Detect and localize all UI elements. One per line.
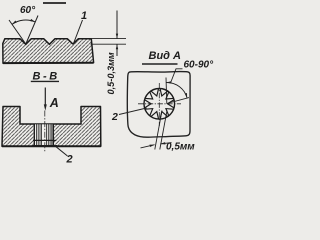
angle dimension legs (60-90) [166,78,189,104]
leader 2 (section view) [56,146,73,165]
dimension 60 degrees: angle legs [9,16,38,45]
background paper [0,0,220,165]
insert bottom flange lines [33,140,58,146]
leader 1 [74,10,88,44]
svg-text:Вид А: Вид А [149,50,182,62]
top fragment line [43,2,66,4]
leader 2 (plan view) [111,108,147,123]
dimension line 0,5-0,3mm with arrows [116,11,118,57]
svg-text:60-90°: 60-90° [184,60,215,71]
svg-text:В-В: В-В [33,71,60,83]
centerlines of hole [138,83,181,126]
extension lines for notch depth [91,39,127,45]
svg-text:1: 1 [81,10,87,22]
centerline of insert (dash-dot) [44,111,46,152]
serrated insert: vertical serration lines [34,124,53,147]
angle dimension arc with arrows [166,81,187,98]
lower block bottom edge (thick) [2,145,101,147]
serrated insert window (white) [34,124,53,145]
dimension 60 degrees: arc with arrows [12,19,35,24]
svg-text:0,5мм: 0,5мм [166,142,195,153]
upper block bottom edge (thick) [3,62,94,64]
svg-text:0,5-0,3мм: 0,5-0,3мм [106,52,116,94]
leader from 60-90 label [171,69,183,83]
lower block: section B-B with groove [2,107,101,147]
label Vid A [142,50,181,64]
tooth width arrows [141,142,172,148]
label B-B [31,71,60,83]
serrated hole: outer circle [144,89,175,120]
svg-text:2: 2 [111,111,118,123]
svg-text:2: 2 [66,154,73,166]
serrated hole: teeth [145,89,174,119]
view arrow A [44,88,59,111]
tooth width extension lines [155,111,167,150]
upper block with V-notches (section) [3,39,94,64]
svg-text:60°: 60° [20,5,36,16]
svg-text:А: А [49,96,59,110]
square plan view (Vid A) [127,72,190,138]
